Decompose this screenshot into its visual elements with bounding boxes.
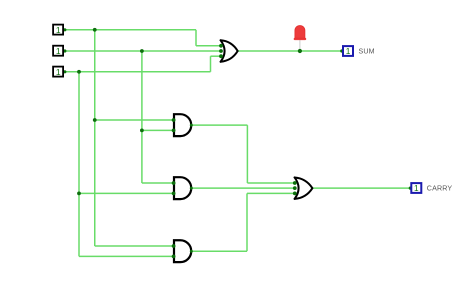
svg-text:1: 1 bbox=[414, 183, 419, 193]
wire VB vertical branch of input2 bbox=[141, 51, 143, 183]
input IN1 value 1 bbox=[53, 25, 63, 35]
pin dot AND3 input 1 bbox=[172, 244, 176, 248]
pin dot AND2 input 1 bbox=[172, 181, 176, 185]
wire VA branch to AND1 pin1 bbox=[95, 119, 174, 121]
svg-text:1: 1 bbox=[56, 46, 61, 56]
pin dot AND3 output bbox=[190, 250, 193, 253]
node junction AND2 pin2 tap bbox=[77, 192, 81, 196]
wire AND1 output horizontal bbox=[191, 124, 247, 126]
pin dot CARRY output box bbox=[409, 187, 412, 190]
and-gate A2 bbox=[174, 177, 191, 199]
wire W3c into XOR pin3 bbox=[211, 55, 222, 57]
wire AND2 output to OR pin2 bbox=[191, 187, 294, 189]
pin dot AND1 input 2 bbox=[172, 129, 176, 133]
node junction AND1 pin2 tap bbox=[140, 129, 144, 133]
label SUM bbox=[359, 47, 375, 55]
wire W1b vertical drop to XOR pin1 bbox=[195, 30, 197, 46]
svg-text:SUM: SUM bbox=[359, 47, 375, 55]
wire W1a input1 horizontal bbox=[65, 29, 197, 31]
pin dot AND1 output bbox=[190, 124, 193, 127]
pin dot AND2 input 2 bbox=[172, 192, 176, 196]
pin dot OR input 2 bbox=[293, 186, 297, 190]
wire VA foot to AND3 pin1 bbox=[95, 245, 174, 247]
pin dot input1 box bbox=[63, 28, 66, 31]
wire AND1 output vertical drop bbox=[246, 125, 248, 183]
node junction input3 branch bbox=[77, 70, 81, 74]
node junction input1 branch bbox=[93, 28, 97, 32]
wire W2 input2 to XOR pin2 bbox=[65, 50, 222, 52]
wire into OR pin3 bbox=[247, 192, 295, 194]
led D1 bbox=[294, 26, 307, 41]
wire W3b vertical rise to XOR pin3 bbox=[210, 56, 212, 72]
svg-text:1: 1 bbox=[346, 46, 351, 56]
output SUM box value 1 bbox=[343, 46, 353, 56]
input IN2 value 1 bbox=[53, 46, 63, 56]
wire VC foot to AND3 pin2 bbox=[79, 255, 174, 257]
pin dot XOR input 2 bbox=[219, 49, 223, 53]
input IN3 value 1 bbox=[53, 67, 63, 77]
pin dot AND3 input 2 bbox=[172, 255, 176, 259]
node junction input2 branch bbox=[140, 49, 144, 53]
svg-text:1: 1 bbox=[56, 25, 61, 35]
wire VB branch to AND1 pin2 bbox=[142, 129, 174, 131]
pin dot OR input 1 bbox=[293, 181, 297, 185]
svg-text:CARRY: CARRY bbox=[427, 185, 453, 193]
wire AND3 output horizontal bbox=[191, 250, 247, 252]
node junction AND1 pin1 tap bbox=[93, 118, 97, 122]
xor-gate U1 (SUM) bbox=[221, 40, 238, 61]
pin dot AND1 input 1 bbox=[172, 118, 176, 122]
pin dot XOR input 3 bbox=[219, 54, 223, 58]
pin dot SUM output box bbox=[340, 49, 343, 52]
wire W1c into XOR pin1 bbox=[196, 45, 221, 47]
and-gate A3 bbox=[174, 240, 191, 262]
wire VC vertical branch of input3 bbox=[78, 72, 80, 257]
wire CARRY net from OR output to CARRY output bbox=[312, 187, 410, 189]
led D1 stem bbox=[299, 40, 301, 50]
wire VA vertical branch of input1 bbox=[94, 30, 96, 246]
wire AND3 output vertical rise bbox=[246, 193, 248, 251]
pin dot input2 box bbox=[63, 49, 66, 52]
svg-text:1: 1 bbox=[56, 67, 61, 77]
output CARRY box value 1 bbox=[411, 183, 421, 193]
wire VC branch to AND2 pin2 bbox=[79, 192, 174, 194]
pin dot XOR input 1 bbox=[219, 44, 223, 48]
wire W3a input3 horizontal bbox=[65, 71, 211, 73]
pin dot AND2 output bbox=[190, 187, 193, 190]
or-gate U2 (CARRY) bbox=[295, 177, 313, 198]
pin dot OR input 3 bbox=[293, 192, 297, 196]
wire into OR pin1 bbox=[247, 182, 294, 184]
wire VB foot to AND2 pin1 bbox=[142, 182, 174, 184]
label CARRY bbox=[427, 185, 453, 193]
node junction LED tap on SUM net bbox=[298, 49, 302, 53]
and-gate A1 bbox=[174, 114, 191, 136]
pin dot input3 box bbox=[63, 70, 66, 73]
wire SUM net from XOR output to SUM output bbox=[238, 50, 342, 52]
